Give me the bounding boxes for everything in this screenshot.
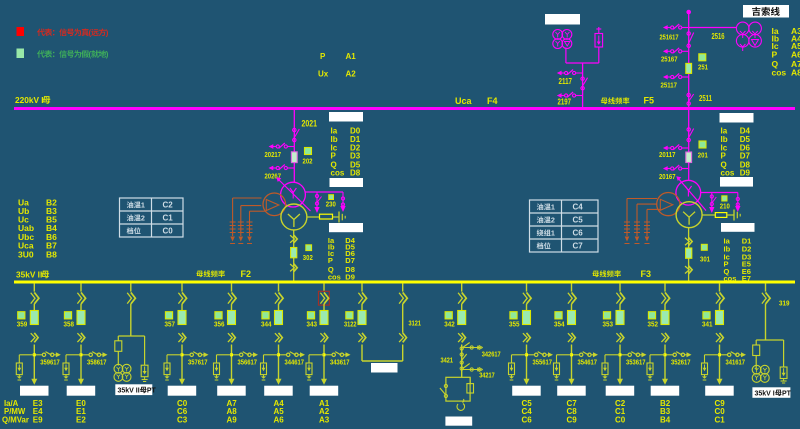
wire 357	[181, 304, 183, 311]
feeder 359 bay	[33, 283, 35, 291]
arrow to load 343	[321, 379, 327, 385]
disconnector 251617	[682, 27, 689, 29]
earthing switch drop 2 tf1	[737, 193, 739, 207]
indicator 3122	[346, 312, 353, 319]
node jisuo line top	[686, 10, 691, 15]
svg-text:A8: A8	[227, 407, 238, 416]
bus tie 3121 bay	[402, 283, 404, 291]
wire 356 lower	[231, 345, 233, 380]
wire jisuo line vertical	[688, 12, 690, 107]
indicator 353	[603, 312, 610, 319]
feeder 358 bay	[80, 283, 82, 291]
arrow to load 341	[717, 379, 723, 385]
legend false (local) square	[17, 49, 25, 59]
svg-text:352: 352	[648, 320, 659, 329]
arrester transformer1 x=627	[626, 220, 628, 236]
legend true (remote) square	[17, 27, 25, 36]
white name box 343	[310, 386, 339, 396]
node 359 branch	[33, 353, 36, 356]
drawout chevron 356 lower	[232, 333, 236, 343]
svg-text:(: (	[89, 28, 92, 37]
svg-text:): )	[106, 28, 109, 37]
disconnector 20267	[287, 167, 294, 169]
svg-text:354: 354	[554, 320, 565, 329]
node 356 branch	[230, 353, 233, 356]
drawout chevron 352 upper	[665, 292, 670, 304]
feeder 354 bay	[571, 283, 573, 291]
disconnector 2197	[576, 95, 583, 97]
disconnector on PT line	[581, 77, 584, 80]
wire transformer1 LV to 35kV bus	[688, 228, 690, 281]
disconnector 25117	[682, 76, 689, 78]
svg-text:220kV I: 220kV I	[15, 95, 44, 105]
node 353 branch	[619, 353, 622, 356]
svg-text:2: 2	[551, 216, 555, 225]
svg-text:C1: C1	[163, 214, 174, 223]
fuse PT I	[753, 345, 760, 356]
wire 357 lower	[181, 345, 183, 380]
breaker 301 on line	[686, 248, 692, 258]
white name box 352	[651, 386, 680, 396]
white name box 354	[557, 386, 586, 396]
breaker 357	[178, 311, 186, 325]
svg-text:P: P	[721, 152, 727, 161]
indicator 201	[699, 141, 706, 148]
arrester branch 357	[167, 354, 182, 356]
node 352 branch	[664, 353, 667, 356]
disconnector 25167	[682, 50, 689, 52]
svg-text:251617: 251617	[660, 33, 679, 42]
node 355 branch	[525, 353, 528, 356]
svg-text:353: 353	[603, 320, 614, 329]
breaker 251 on line	[686, 63, 692, 73]
feeder 355 bay	[526, 283, 528, 291]
svg-text:(: (	[89, 50, 92, 59]
indicator 342	[445, 312, 452, 319]
svg-text:cos: cos	[328, 273, 341, 282]
disconnector 3421	[460, 353, 463, 356]
transformer1 LV winding	[676, 202, 702, 228]
35kV PT I bay	[765, 283, 767, 291]
svg-text:359: 359	[17, 320, 28, 329]
svg-text:230: 230	[326, 200, 336, 209]
breaker 3122	[358, 311, 366, 325]
white name box transformer1 HV	[720, 113, 754, 123]
drawout chevron PT I	[766, 292, 771, 304]
disconnector 342617	[460, 347, 463, 350]
disconnector 357617	[182, 354, 190, 356]
svg-text:C8: C8	[567, 407, 578, 416]
svg-text:202: 202	[303, 157, 313, 166]
wire 3122 to tie	[361, 345, 363, 362]
disconnector 356617	[232, 354, 240, 356]
wire 352	[664, 304, 666, 311]
PT II winding cluster	[114, 364, 123, 373]
drawout chevron tf1 lower	[689, 266, 693, 274]
white name box station transformer	[445, 417, 472, 426]
disconnector 354617	[572, 354, 580, 356]
white name box 35kV PT I	[752, 387, 790, 398]
drawout chevron 354 lower	[572, 333, 576, 343]
svg-text:2021: 2021	[302, 119, 318, 130]
disconnector 2117	[576, 72, 583, 74]
PT I winding cluster	[752, 365, 761, 374]
node 343 branch	[323, 353, 326, 356]
svg-text:35kV II: 35kV II	[118, 388, 140, 395]
svg-text:cos: cos	[721, 169, 735, 178]
svg-text:341: 341	[702, 320, 713, 329]
wire 358	[80, 304, 82, 311]
feeder 357 bay	[181, 283, 183, 291]
arrester branch 341	[705, 354, 720, 356]
arrester at x=249.5	[249, 220, 251, 236]
drawout chevron 343 upper	[324, 292, 329, 304]
arrester branch 353	[605, 354, 620, 356]
svg-text:C2: C2	[163, 201, 174, 210]
drawout chevron 357 lower	[182, 333, 186, 343]
svg-text:Uca: Uca	[455, 96, 473, 106]
wires tertiary1 to arresters	[627, 198, 657, 200]
white name box 220kV PT	[545, 14, 580, 25]
indicator 355	[510, 312, 517, 319]
svg-text:F4: F4	[487, 96, 498, 106]
drawout chevron 344 upper	[279, 292, 284, 304]
svg-text:F5: F5	[644, 96, 655, 106]
svg-text:35kV II: 35kV II	[16, 270, 42, 280]
svg-text:Ux: Ux	[318, 70, 329, 79]
feeder 344 bay	[278, 283, 280, 291]
wire 354 lower	[571, 345, 573, 380]
svg-text:PT: PT	[147, 388, 157, 395]
svg-text:2511: 2511	[699, 94, 712, 103]
wire 343	[323, 304, 325, 311]
arrow to load 354	[569, 379, 575, 385]
feeder 341 bay	[719, 283, 721, 291]
wire 352 lower	[664, 345, 666, 380]
svg-text:P: P	[772, 50, 778, 60]
disconnector 344617	[279, 354, 287, 356]
station transformer coil	[457, 399, 465, 410]
white name box bus tie	[371, 363, 398, 373]
svg-text:3U0: 3U0	[18, 249, 34, 259]
disconnector 359617	[34, 354, 42, 356]
svg-text:A9: A9	[227, 416, 238, 425]
drawout chevron 359 lower	[34, 333, 38, 343]
earthing switch drop 1 tf1	[711, 193, 713, 208]
drawout chevron 343 lower	[324, 333, 328, 343]
svg-text:F3: F3	[641, 269, 652, 279]
indicator 251	[699, 54, 706, 61]
indicator 359	[18, 312, 25, 319]
svg-text:cos: cos	[772, 68, 787, 78]
breaker 342	[458, 311, 466, 325]
legend false (local) text	[37, 50, 45, 57]
svg-text:C1: C1	[715, 416, 726, 425]
white name box jisuo line	[743, 5, 789, 18]
35kV PT II bay	[130, 283, 132, 291]
svg-text:C9: C9	[567, 416, 578, 425]
svg-text:357617: 357617	[188, 357, 208, 366]
fuse PT II	[115, 341, 122, 352]
svg-text:302: 302	[303, 253, 313, 262]
white name box 357	[168, 386, 197, 396]
transformer2 tap arrow	[278, 179, 311, 212]
svg-text:353617: 353617	[626, 357, 646, 366]
svg-text:): )	[106, 50, 109, 59]
svg-text:C1: C1	[615, 407, 626, 416]
arrester at x=240.8	[240, 220, 242, 236]
svg-text:210: 210	[720, 202, 730, 211]
svg-text:356: 356	[214, 320, 225, 329]
wire 353 lower	[619, 345, 621, 380]
arrow to load 352	[662, 379, 668, 385]
drawout chevron 341 upper	[720, 292, 725, 304]
indicator 230	[329, 195, 334, 200]
arrow to load 358	[78, 379, 84, 385]
wire 358 lower	[80, 345, 82, 380]
white name box 210 branch	[720, 177, 753, 187]
svg-text:Q/MVar: Q/MVar	[2, 416, 29, 425]
neutral grounding resistor tf1	[702, 214, 715, 216]
drawout chevron 342 upper	[462, 292, 467, 304]
svg-text:359617: 359617	[40, 357, 60, 366]
svg-text:344: 344	[261, 320, 272, 329]
wire 356	[231, 304, 233, 311]
svg-text:D9: D9	[740, 169, 751, 178]
wire 355 lower	[526, 345, 528, 380]
arrester branch 354	[557, 354, 572, 356]
svg-text:251: 251	[698, 62, 708, 71]
svg-text:20167: 20167	[659, 172, 676, 181]
white name box 358	[67, 386, 96, 396]
wire 355	[526, 304, 528, 311]
svg-text:342617: 342617	[482, 350, 501, 359]
wire 210 branch	[701, 192, 738, 194]
drawout chevron 358 lower	[81, 333, 85, 343]
wire 353	[619, 304, 621, 311]
breaker 302 on line	[291, 248, 297, 258]
white name box 35kV PT II	[115, 384, 152, 395]
wire PT junction	[565, 48, 567, 64]
disconnector 20167	[682, 168, 689, 170]
drawout chevron 3122 lower	[362, 333, 366, 343]
svg-text:357: 357	[165, 320, 176, 329]
indicator 301	[701, 244, 707, 250]
svg-text:A2: A2	[319, 407, 330, 416]
indicator 202	[305, 148, 312, 155]
feeder 353 bay	[619, 283, 621, 291]
drawout chevron 355 lower	[527, 333, 531, 343]
drawout chevron 355 upper	[527, 292, 532, 304]
disconnector 2021 on line	[293, 128, 296, 131]
svg-text:3122: 3122	[344, 320, 357, 329]
wire 354	[571, 304, 573, 311]
arrow to load 353	[617, 379, 623, 385]
svg-text:D8: D8	[350, 169, 361, 178]
arrow to load 357	[179, 379, 185, 385]
breaker 341	[716, 311, 724, 325]
disconnector 34217	[460, 367, 463, 370]
svg-text:356617: 356617	[238, 357, 258, 366]
svg-text:358: 358	[64, 320, 75, 329]
feeder 352 bay	[664, 283, 666, 291]
breaker 202 on line	[291, 152, 297, 163]
svg-text:3421: 3421	[441, 356, 454, 365]
svg-text:E1: E1	[76, 407, 86, 416]
svg-text:25117: 25117	[661, 80, 678, 89]
drawout chevron 353 lower	[620, 333, 624, 343]
disconnector on transformer1 line	[687, 128, 690, 131]
arrester branch 352	[650, 354, 665, 356]
svg-text:1: 1	[551, 203, 555, 212]
svg-text:3121: 3121	[409, 319, 422, 328]
svg-text:C3: C3	[177, 416, 188, 425]
ground box PT II	[141, 365, 148, 377]
35kV bus	[14, 281, 795, 284]
drawout chevron 353 upper	[620, 292, 625, 304]
svg-text:B4: B4	[660, 416, 671, 425]
white name box 356	[217, 386, 246, 396]
svg-text:cos: cos	[331, 169, 345, 178]
wire to line CT cluster	[689, 27, 737, 29]
drawout chevron 358 upper	[81, 292, 86, 304]
arrester branch 355	[512, 354, 527, 356]
drawout chevron PT II	[131, 292, 136, 304]
white name box 359	[20, 386, 49, 396]
indicator 343	[307, 312, 314, 319]
indicator 357	[165, 312, 172, 319]
wire 344	[278, 304, 280, 311]
disconnector 20117	[682, 147, 689, 149]
wire 341 lower	[719, 345, 721, 380]
legend true (remote) text	[37, 29, 45, 36]
arrester transformer1 x=647	[646, 220, 648, 236]
earthing switch drop 1	[316, 192, 318, 207]
arrester branch 343	[309, 354, 324, 356]
white name box 344	[264, 386, 293, 396]
220kV bus I	[14, 107, 795, 110]
feeder 356 bay	[231, 283, 233, 291]
wire transformer2 LV to 35kV bus	[293, 230, 295, 281]
svg-text:D7: D7	[345, 256, 355, 265]
arrester branch 358	[66, 354, 81, 356]
disconnector 352617	[665, 354, 673, 356]
drawout chevron 356 upper	[232, 292, 237, 304]
switch in enclosure	[444, 384, 447, 387]
svg-text:A1: A1	[346, 52, 357, 61]
drawout chevron 3121 lower	[403, 333, 407, 343]
line PT cluster 2516	[736, 22, 749, 35]
disconnector 2511 on line	[687, 93, 690, 96]
wire PT II down	[130, 304, 132, 336]
svg-text:P: P	[320, 52, 326, 61]
bus label frequency F3	[592, 271, 599, 278]
svg-text:C0: C0	[163, 227, 174, 236]
svg-text:355: 355	[509, 320, 520, 329]
svg-text:P: P	[331, 152, 337, 161]
wires tertiary to arresters	[233, 197, 262, 199]
arrester at x=232.6	[232, 220, 234, 236]
arrester transformer1 x=637	[636, 220, 638, 236]
table transformer2 temps	[530, 200, 599, 252]
arrester branch 356	[217, 354, 232, 356]
drawout chevron 344 lower	[279, 333, 283, 343]
svg-text:F2: F2	[241, 269, 252, 279]
feeder 342 bay	[461, 283, 463, 291]
svg-text:C5: C5	[573, 216, 584, 225]
neutral grounding resistor	[307, 216, 320, 218]
white name box transformer2 HV	[329, 112, 363, 122]
svg-text:25167: 25167	[661, 55, 678, 64]
svg-text:P/MW: P/MW	[4, 407, 26, 416]
svg-text:E4: E4	[33, 407, 43, 416]
disconnector 341617	[720, 354, 728, 356]
white name box transformer1 LV	[721, 223, 755, 232]
indicator 341	[703, 312, 710, 319]
svg-text:A5: A5	[274, 407, 285, 416]
svg-text:B8: B8	[46, 249, 57, 259]
arrow to load 355	[524, 379, 530, 385]
transformer1 tertiary winding	[657, 193, 680, 216]
drawout chevron 359 upper	[34, 292, 39, 304]
indicator 302	[306, 245, 312, 251]
transformer1 tap arrow	[678, 178, 707, 211]
drawout chevron LV lower	[294, 264, 298, 272]
disconnector 353617	[620, 354, 628, 356]
220kV PT winding cluster	[553, 30, 563, 40]
wire 344 lower	[278, 345, 280, 380]
white name box 230 branch	[330, 178, 364, 187]
drawout chevron 3121 upper	[403, 292, 408, 304]
svg-text:C4: C4	[522, 407, 533, 416]
arrester branch 359	[19, 354, 34, 356]
svg-text:2197: 2197	[558, 98, 572, 107]
svg-text:C4: C4	[573, 203, 584, 212]
transformer2 HV winding	[281, 182, 306, 207]
breaker 343	[320, 311, 328, 325]
svg-text:20117: 20117	[659, 150, 676, 159]
svg-text:358617: 358617	[87, 357, 107, 366]
indicator 356	[215, 312, 222, 319]
svg-text:C7: C7	[573, 242, 584, 251]
drawout chevron 354 upper	[572, 292, 577, 304]
breaker 201 on line	[686, 152, 692, 163]
svg-text:C6: C6	[177, 407, 188, 416]
drawout chevron 352 lower	[665, 333, 669, 343]
wire 3121 to tie	[402, 345, 404, 362]
drawout chevron 341 lower	[720, 333, 724, 343]
wire 3121	[402, 304, 404, 333]
svg-text:E9: E9	[33, 416, 43, 425]
drawout chevron 3122 upper	[362, 292, 367, 304]
arrow to load 344	[276, 379, 282, 385]
indicator 352	[648, 312, 655, 319]
svg-text:352617: 352617	[671, 357, 691, 366]
alarm box feeder 343	[319, 291, 330, 305]
svg-text:342: 342	[444, 320, 455, 329]
wire 230 branch	[305, 191, 343, 193]
disconnector 343617	[324, 354, 332, 356]
svg-text:2: 2	[141, 214, 145, 223]
station transformer enclosure	[446, 377, 470, 401]
breaker 359	[30, 311, 38, 325]
svg-text:354617: 354617	[578, 357, 598, 366]
breaker 354	[568, 311, 576, 325]
wire PT to bus	[582, 63, 584, 107]
svg-text:E2: E2	[76, 416, 86, 425]
wire 341	[719, 304, 721, 311]
bus tie 3122 bay	[361, 283, 363, 291]
